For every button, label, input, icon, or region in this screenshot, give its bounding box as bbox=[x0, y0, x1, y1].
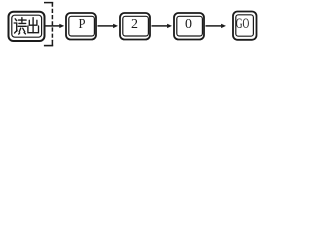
svg-text:2: 2 bbox=[131, 17, 138, 32]
key GO outer bbox=[233, 12, 257, 40]
key GO inner bbox=[236, 15, 254, 36]
separator bracket bottom serif bbox=[44, 45, 53, 47]
svg-text:P: P bbox=[79, 17, 86, 32]
key 0 outer bbox=[174, 13, 204, 40]
text DU (hand-drawn strokes) bbox=[14, 18, 26, 34]
arrow 1 head bbox=[59, 24, 64, 28]
arrow 2 head bbox=[113, 24, 118, 28]
key 2 inner bbox=[123, 16, 149, 36]
separator bracket top serif bbox=[44, 2, 53, 4]
arrow 2 line bbox=[98, 25, 114, 27]
text CHU (hand-drawn strokes) bbox=[28, 18, 39, 33]
separator line bottom stub bbox=[51, 41, 53, 46]
display box DU-CHU outer bbox=[9, 12, 45, 41]
key 0 inner bbox=[177, 16, 203, 36]
separator dashed vertical line bbox=[51, 3, 53, 41]
key P inner bbox=[69, 16, 95, 36]
arrow 3 head bbox=[167, 24, 172, 28]
svg-text:0: 0 bbox=[185, 17, 192, 32]
arrow 3 line bbox=[152, 25, 168, 27]
display box DU-CHU inner bbox=[12, 15, 42, 37]
key 2 outer bbox=[120, 13, 150, 40]
key P outer bbox=[66, 13, 96, 40]
arrow 4 line bbox=[206, 25, 222, 27]
arrow 1 line bbox=[46, 25, 60, 27]
svg-text:GO: GO bbox=[236, 16, 250, 32]
arrow 4 head bbox=[221, 24, 226, 28]
